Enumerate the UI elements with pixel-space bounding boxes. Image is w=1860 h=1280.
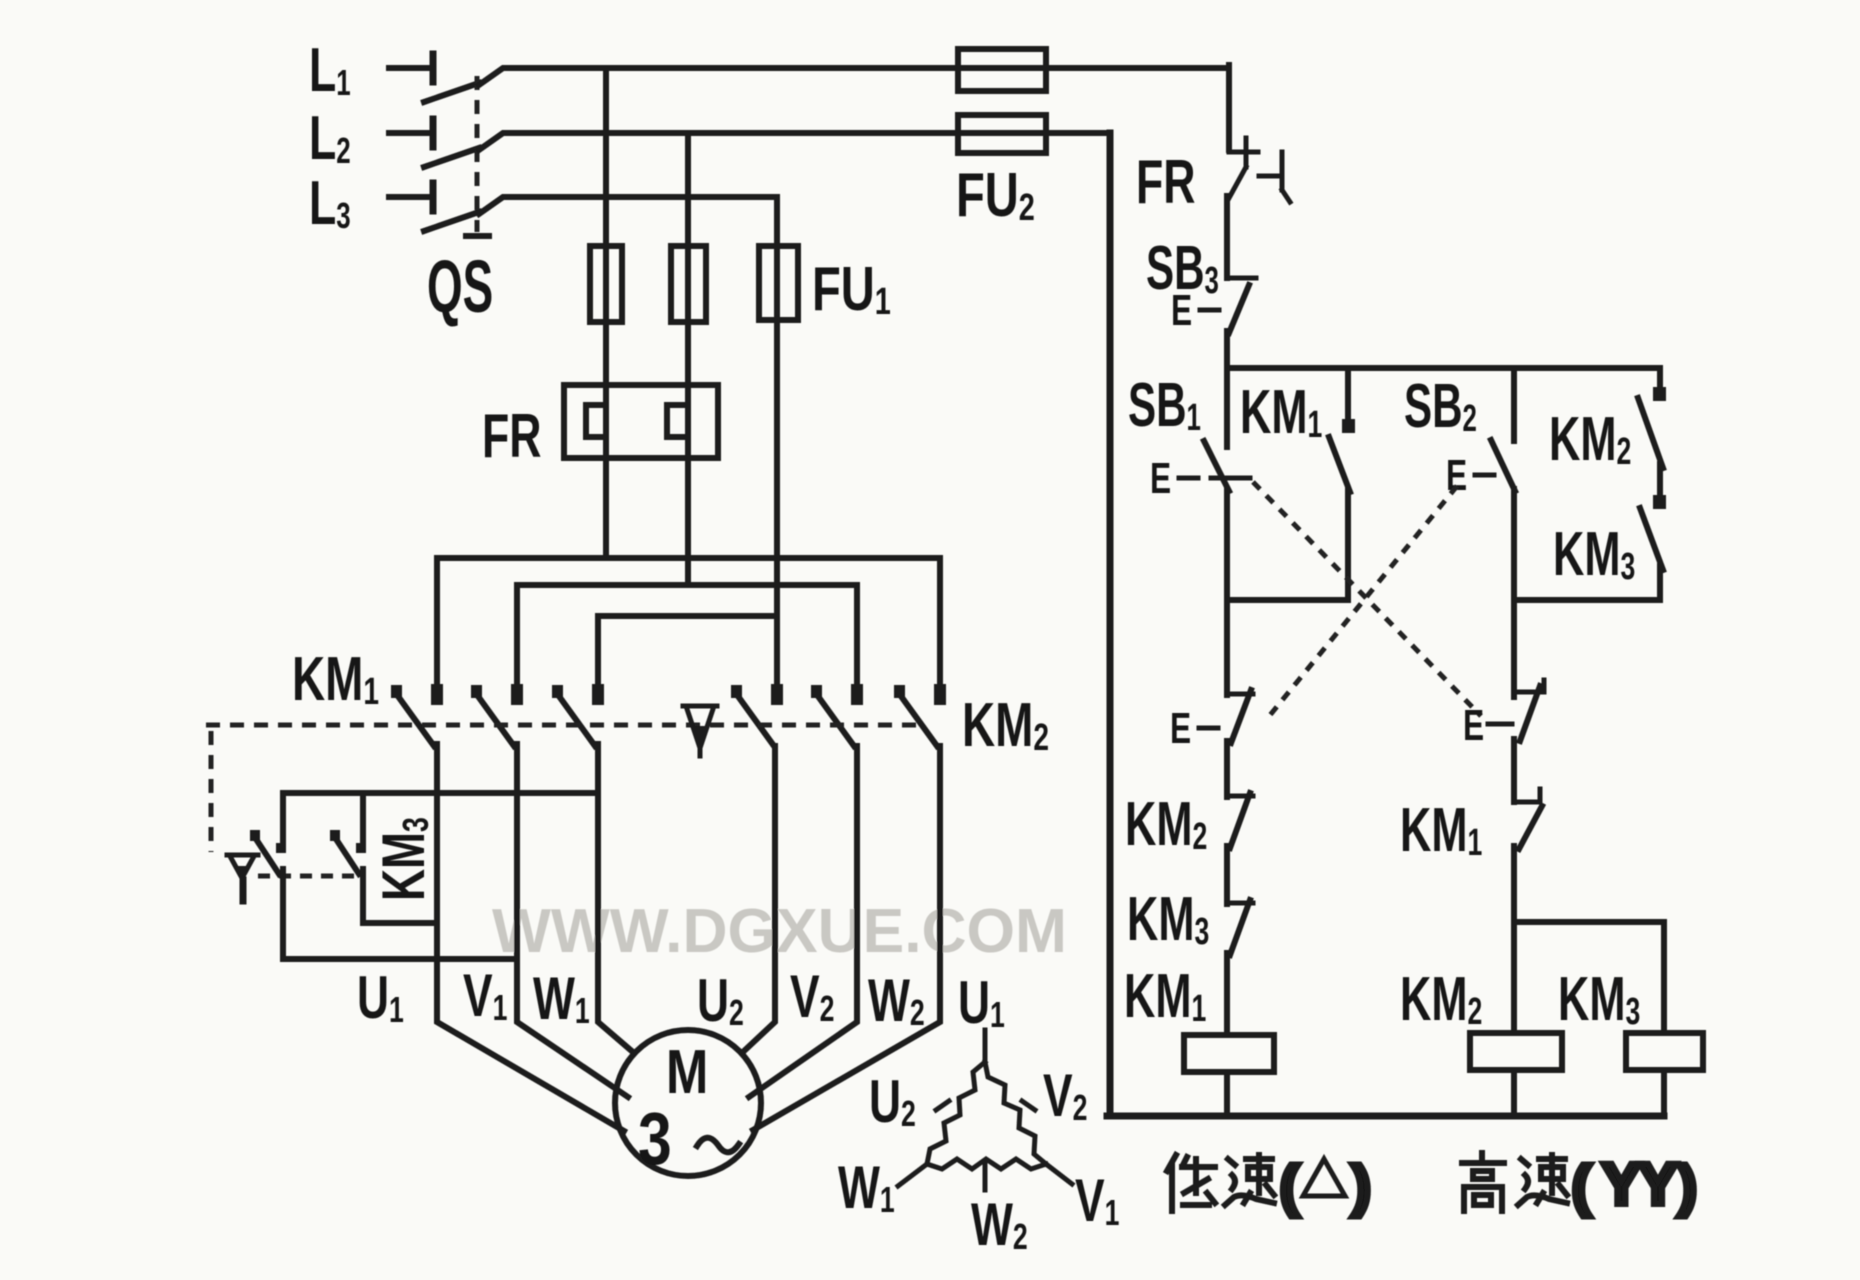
wire rail SB1 down (1224, 489, 1230, 695)
svg-text:E: E (1463, 701, 1484, 750)
svg-text:WWW.DGXUE.COM: WWW.DGXUE.COM (492, 897, 1067, 966)
terminal L1 (389, 54, 433, 82)
mechanical linkage dashed main (206, 723, 918, 728)
label KM3 rotated (371, 817, 438, 901)
label V1 delta (1075, 1168, 1119, 1235)
contactor KM2 main contact 3 (894, 684, 946, 746)
label FU2 (956, 160, 1035, 230)
KM3 box top wire (283, 790, 598, 796)
label E SB1 (1150, 454, 1198, 503)
wire distribution line 2 (517, 585, 857, 700)
fuse FU2 b (958, 115, 1046, 153)
svg-text:): ) (1678, 1154, 1697, 1217)
KM3 middle wire lower (363, 869, 437, 923)
wire SB2 down (1511, 489, 1517, 697)
coil KM3 (1626, 1033, 1703, 1070)
contact KM2 NC left rail (1229, 793, 1253, 848)
label FR main (482, 402, 542, 471)
FR heater element B (667, 405, 688, 437)
coil KM2 (1470, 1033, 1562, 1070)
delta W1 tail (898, 1164, 927, 1186)
wire KM1 NO down to coil KM2 (1511, 846, 1517, 1033)
label W2 delta (971, 1192, 1028, 1259)
coil KM1 (1184, 1035, 1274, 1072)
contactor KM3 contact 1 (250, 830, 286, 874)
contactor KM2 main contact 2 (811, 684, 863, 746)
label KM2 right (1549, 406, 1631, 474)
button SB2 start contact (1491, 440, 1515, 491)
wire to KM1 NO (1511, 739, 1517, 802)
label L2 (309, 104, 351, 173)
label E left NC (1170, 704, 1218, 753)
delta V1 tail (1046, 1164, 1072, 1184)
label L3 (309, 169, 351, 238)
contact KM1 selfhold (1329, 419, 1355, 492)
contactor KM1 main contact 1 (391, 684, 443, 746)
interlock dashed SB1 cross (1253, 482, 1481, 716)
label E SB2 (1446, 451, 1494, 500)
wire distribution line 1 (437, 558, 940, 700)
caption low speed delta (1167, 1154, 1371, 1217)
label W1 delta (838, 1155, 895, 1222)
label KM3 left (1127, 886, 1209, 954)
FR heater element A (586, 405, 606, 437)
mechanical linkage dashed KM3 (258, 874, 356, 879)
wire motor lead V1 (517, 744, 628, 1097)
contact KM1 NO right (1516, 789, 1542, 849)
label E SB3 (1171, 286, 1219, 335)
wire selfhold KM1 down (1345, 490, 1351, 600)
label U2 terminal (697, 968, 744, 1035)
svg-text:E: E (1171, 286, 1192, 335)
contact KM3 NC left rail (1229, 900, 1253, 955)
label FR control (1136, 148, 1196, 217)
terminal L3 (389, 183, 433, 211)
wire selfhold KM1 drop (1345, 368, 1351, 424)
label U1 delta (958, 970, 1005, 1037)
label KM3 coil (1558, 966, 1640, 1034)
label KM1 main (292, 644, 379, 713)
motor text 3 (638, 1098, 672, 1180)
svg-text:M: M (666, 1038, 708, 1107)
svg-text:FR: FR (1136, 148, 1196, 217)
KM3 box left wire lower (280, 869, 286, 959)
wire KM2KM3 drop (1657, 368, 1663, 392)
motor M circle (615, 1030, 761, 1176)
contactor KM1 main contact 3 (552, 684, 604, 746)
label KM1 right (1400, 797, 1482, 865)
wire L2 (479, 133, 1107, 150)
wire distribution line 3 (598, 616, 777, 700)
fuse FU2 a (958, 49, 1046, 91)
label KM2 coil (1400, 966, 1482, 1034)
contact NC linked SB1 right (1516, 680, 1544, 741)
button SB1 start contact (1204, 441, 1250, 491)
KM3 box left wire upper (280, 793, 286, 849)
delta V2 tick (1022, 1101, 1035, 1110)
contact KM2 interlock NC (1638, 387, 1666, 468)
label W1 terminal (533, 966, 590, 1033)
label V2 terminal (790, 964, 834, 1031)
linkage pointer upper (683, 706, 717, 756)
button SB3 stop contact (1229, 278, 1256, 333)
delta winding right side (985, 1062, 1046, 1164)
label KM1 selfhold (1240, 379, 1322, 447)
wire rail FR to SB3 (1224, 196, 1230, 278)
contact KM3 interlock NC (1640, 495, 1666, 570)
wire bottom rail (1107, 1113, 1664, 1120)
label KM1 coil (1124, 963, 1206, 1031)
switch QS blade 2 (424, 148, 479, 167)
mechanical linkage dashed drop left (209, 731, 214, 852)
interlock dashed SB2 cross (1266, 486, 1457, 720)
wire rail SB3 to SB1 (1224, 331, 1230, 447)
label E right NC (1463, 701, 1512, 750)
wire motor lead V2 (749, 746, 857, 1097)
wire KM3 down (1657, 566, 1663, 600)
wire L1 (479, 68, 1229, 85)
motor tilde (697, 1138, 739, 1153)
svg-text:FR: FR (482, 402, 542, 471)
label V1 terminal (463, 963, 507, 1030)
label KM2 main (962, 690, 1049, 759)
wire phase B vertical (685, 133, 691, 585)
wire motor lead W2 (753, 746, 940, 1130)
wire control branch top (1227, 365, 1660, 371)
wire coil KM2 down (1511, 1070, 1517, 1116)
wire coil KM3 down (1661, 1070, 1667, 1116)
label QS (427, 246, 493, 329)
wire KM2 NC to KM3 NC (1224, 846, 1230, 904)
switch QS linkage dashed (466, 76, 489, 236)
wire phase A vertical (603, 68, 609, 558)
label SB2 (1404, 372, 1477, 441)
wire KM3 NC to coil (1224, 953, 1230, 1035)
switch QS blade 1 (424, 83, 479, 102)
label KM2 left (1125, 791, 1207, 859)
caption high speed YY (1462, 1152, 1697, 1217)
wire L3 (479, 197, 777, 214)
motor letter M (666, 1038, 708, 1107)
delta W2 tick (983, 1164, 988, 1190)
wire SB2 drop (1511, 368, 1517, 441)
wire phase C vertical (774, 197, 780, 700)
label SB1 (1128, 371, 1201, 440)
wire rail to KM2 NC (1224, 741, 1230, 797)
relay FR control contact (1229, 138, 1290, 202)
label U1 terminal (357, 965, 404, 1032)
delta U2 tick (936, 1101, 949, 1110)
svg-text:E: E (1150, 454, 1171, 503)
wire box bottom link right (1514, 597, 1660, 603)
linkage pointer lower (227, 855, 258, 901)
delta winding bottom side (927, 1159, 1046, 1169)
terminal L2 (389, 119, 433, 147)
svg-text:E: E (1170, 704, 1191, 753)
svg-text:QS: QS (427, 246, 493, 329)
wire motor lead W1 (598, 744, 634, 1053)
delta apex terminal (983, 1030, 988, 1062)
fuse FU1 b (671, 246, 706, 322)
fuse FU1 c (759, 246, 798, 320)
wire motor lead U2 (744, 746, 775, 1051)
svg-text:3: 3 (638, 1098, 672, 1180)
contactor KM2 main contact 1 (731, 684, 783, 746)
wire coil KM1 to rail (1224, 1072, 1230, 1116)
svg-text:): ) (1352, 1154, 1371, 1217)
label U2 delta (869, 1069, 916, 1136)
fuse FU1 a (590, 246, 622, 322)
svg-text:(: ( (1280, 1154, 1299, 1217)
svg-text:E: E (1446, 451, 1467, 500)
svg-text:(: ( (1572, 1154, 1591, 1217)
label L1 (309, 36, 351, 105)
contactor KM1 main contact 2 (471, 684, 523, 746)
relay FR heater box (564, 385, 718, 458)
switch QS blade 3 (424, 212, 479, 231)
svg-text:YY: YY (1602, 1152, 1677, 1217)
label V2 delta (1043, 1063, 1087, 1130)
wire control rail left top (1226, 65, 1232, 150)
wire branch to KM3 coil (1514, 922, 1664, 1033)
wire selfhold bottom link (1227, 597, 1348, 603)
KM3 box bottom wire (283, 956, 517, 962)
label SB3 (1146, 234, 1219, 303)
contactor KM3 contact 2 (330, 830, 366, 874)
wire motor lead U1 (437, 744, 624, 1131)
label KM3 right (1553, 521, 1635, 589)
label W2 terminal (868, 968, 925, 1035)
wire control rail right return (1107, 133, 1114, 1116)
contact NC linked SB2 left (1230, 690, 1253, 743)
KM3 middle wire upper (360, 793, 366, 849)
label FU1 (812, 254, 891, 324)
wire KM2 to KM3 (1657, 464, 1663, 501)
delta winding left side (927, 1062, 985, 1164)
